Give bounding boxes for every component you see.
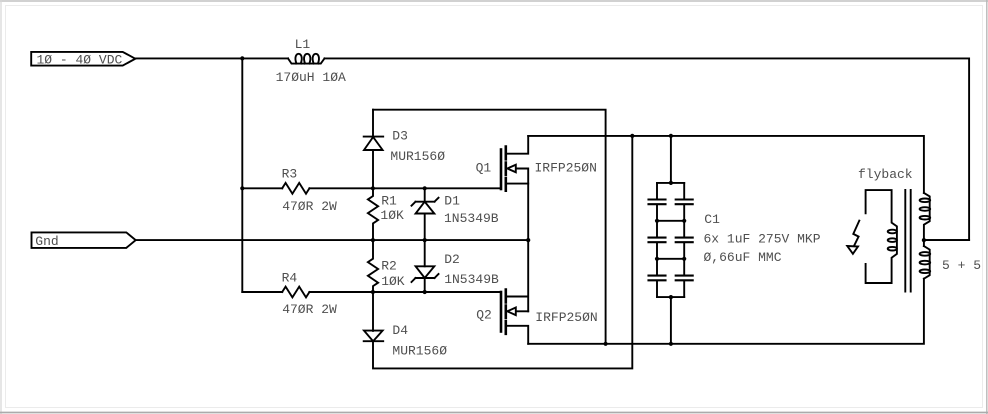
wire input flag to L1 [135,57,288,59]
junction C1 top bar [669,181,673,185]
svg-text:IRFP25ØN: IRFP25ØN [535,310,597,325]
resistor R4 [282,287,309,298]
wire R4 to Q2 gate [309,291,501,293]
flyback HV loop [866,190,897,283]
resistor R2 [368,240,378,292]
svg-text:D2: D2 [444,252,460,267]
junction Gnd / D1-D2 [423,238,427,242]
rail node B (bottom) [528,279,924,344]
svg-text:1ØK: 1ØK [380,208,404,223]
flyback HV coil loops [888,230,897,234]
zener D1 [412,198,439,206]
zener D2 [416,266,435,278]
net flag Gnd [32,232,136,248]
wire L1 to right edge down to transformer tap [325,58,970,240]
svg-text:1N5349B: 1N5349B [444,211,499,226]
diode D4 [364,331,383,342]
mosfet Q2 arrow head [507,308,516,316]
rail node A (top) [528,136,924,193]
junction Gnd / R1-R2 [371,238,375,242]
mosfet Q2 channel [504,290,507,334]
junction Gnd / Q1-Q2 sources [526,238,530,242]
junction C1 rung 2 left [655,257,659,261]
spark gap bolt [853,221,859,247]
junction transformer center tap [922,238,926,242]
junction C1 rung 1 left [655,219,659,223]
svg-text:C1: C1 [704,212,720,227]
svg-text:6x 1uF 275V MKP: 6x 1uF 275V MKP [704,232,821,247]
wire D2 to row B [424,278,426,292]
svg-text:1Ø - 4Ø VDC: 1Ø - 4Ø VDC [37,52,123,67]
svg-text:IRFP25ØN: IRFP25ØN [535,160,597,175]
diode D3 [364,136,384,138]
svg-text:1ØK: 1ØK [381,274,405,289]
junction row B / D2 [423,290,427,294]
svg-text:Gnd: Gnd [35,234,58,249]
resistor R1 [368,188,378,240]
svg-text:MUR156Ø: MUR156Ø [392,343,447,358]
junction row A / D1 [423,186,427,190]
junction node A / D4 riser [630,134,634,138]
junction node B / D3 riser [604,342,608,346]
flyback primary winding upper [924,193,930,246]
wire Gnd rail [136,239,529,241]
mosfet Q1 channel [504,147,507,191]
svg-text:D4: D4 [392,323,408,338]
svg-text:47ØR 2W: 47ØR 2W [282,302,337,317]
junction C1 rung 2 right [682,257,686,261]
net flag 10-40VDC [31,52,135,66]
junction row B / R2-D4 [371,290,375,294]
wire row B to R4 [242,291,282,293]
wire D4 bottom to riser [373,136,632,369]
transformer core [905,190,910,292]
svg-text:Q2: Q2 [476,308,492,323]
junction row A / R1-D3 [371,186,375,190]
junction C1 bottom bar [669,295,673,299]
capacitor bank bars [657,183,684,297]
svg-text:17ØuH 1ØA: 17ØuH 1ØA [276,70,346,85]
capacitor column stubs [656,183,658,297]
junction node B / C1 lead [669,342,673,346]
wire center tap [924,239,969,241]
svg-text:L1: L1 [295,37,311,52]
wire row A to R3 [242,187,282,189]
wire left vertical V+ [241,58,243,292]
svg-text:Ø,66uF MMC: Ø,66uF MMC [704,250,782,265]
svg-text:flyback: flyback [858,167,913,182]
wire cross-couple box D3 [373,110,606,344]
svg-text:D1: D1 [444,193,460,208]
svg-text:R3: R3 [282,167,298,182]
wire D1 to Gnd row [424,214,426,241]
wire D3 top lead [372,110,374,137]
mosfet Q2 body arrow line [515,310,528,312]
svg-text:5 + 5: 5 + 5 [942,258,981,273]
flyback primary winding lower [924,246,930,279]
mosfet Q2 drain lead [507,326,529,344]
svg-text:1N5349B: 1N5349B [444,272,499,287]
capacitor plates [649,200,693,281]
svg-text:MUR156Ø: MUR156Ø [390,149,445,164]
wire D4 lead [372,292,374,331]
mosfet Q1 drain lead [507,136,529,154]
capacitor bank C1 center leads [670,136,672,344]
wire D2 lead [424,240,426,266]
svg-text:R4: R4 [282,271,298,286]
svg-text:47ØR 2W: 47ØR 2W [282,199,337,214]
mosfet Q2 gate bar [500,292,503,332]
wire D3 to row A [372,150,374,188]
junction row A at V+ column [240,186,244,190]
svg-text:D3: D3 [392,129,408,144]
inductor L1 [288,58,325,63]
junction node A / C1 lead [669,134,673,138]
junction C1 rung 1 right [682,219,686,223]
resistor R3 [282,183,309,194]
wire R3 to Q1 gate [309,187,501,189]
mosfet Q1 body arrow line [515,169,528,241]
mosfet Q1 arrow head [507,165,516,173]
junction V+ input [240,56,244,60]
svg-text:R2: R2 [381,258,397,273]
svg-text:R1: R1 [381,194,397,209]
mosfet Q1 gate bar [500,150,503,190]
mosfet Q1 source lead [507,183,529,185]
mosfet Q2 source lead [507,240,529,311]
zener D1 lead [424,188,426,201]
svg-text:Q1: Q1 [476,161,492,176]
